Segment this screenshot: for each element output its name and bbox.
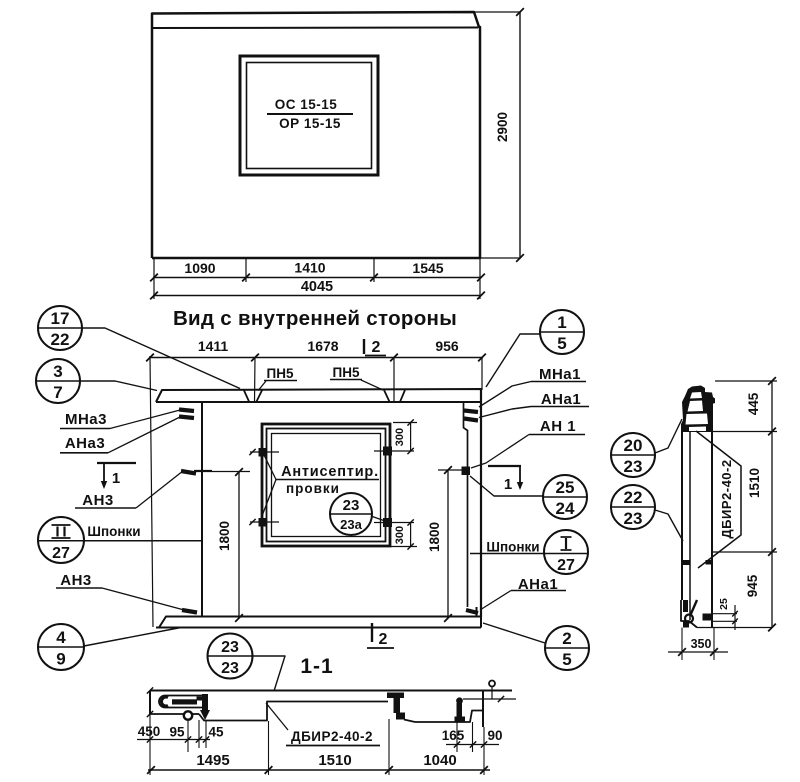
svg-text:95: 95: [169, 725, 185, 740]
section cut 2 bottom mark: [371, 623, 373, 642]
section left end edge: [149, 691, 151, 715]
svg-text:Вид с внутренней стороны: Вид с внутренней стороны: [173, 307, 457, 330]
svg-text:ПН5: ПН5: [333, 365, 360, 380]
anchor mark AN3 left: [181, 471, 196, 474]
dimension 1495 1510 1040: [148, 769, 490, 771]
dimension 350: [681, 628, 683, 661]
svg-text:1800: 1800: [427, 522, 442, 552]
svg-text:1510: 1510: [318, 752, 351, 769]
lifting loop circle: [184, 711, 192, 719]
svg-text:350: 350: [691, 637, 712, 651]
anchor mark ANa1 bottom right: [466, 610, 478, 613]
svg-text:Шпонки: Шпонки: [486, 540, 539, 555]
dimension 165 and 90: [446, 744, 499, 746]
svg-text:5: 5: [562, 650, 571, 669]
antiseptic plug mark right top: [374, 450, 414, 452]
svg-text:2900: 2900: [495, 112, 510, 142]
vertical dimension 2900: [519, 12, 521, 258]
panel left edge: [201, 402, 203, 617]
section right edge: [482, 691, 484, 728]
top elevation: window opening inner frame: [247, 63, 372, 169]
svg-text:7: 7: [53, 383, 62, 402]
panel right edge: [480, 389, 482, 617]
leader from 3/7 to bar left end: [80, 381, 157, 391]
antiseptic plug mark right bottom: [374, 522, 414, 524]
svg-text:АН3: АН3: [60, 572, 92, 589]
svg-text:ПН5: ПН5: [267, 366, 294, 381]
dimension 300 top right of window: [410, 423, 412, 452]
dimension 1800 left: [238, 472, 240, 618]
top elevation: top strip line: [152, 27, 478, 30]
svg-text:ДБИР2-40-2: ДБИР2-40-2: [719, 459, 734, 538]
svg-text:23: 23: [624, 509, 643, 528]
extension from loop down: [187, 720, 189, 753]
svg-text:1: 1: [557, 313, 566, 332]
svg-text:4045: 4045: [301, 279, 333, 295]
svg-text:МНа1: МНа1: [539, 366, 581, 383]
callout 22/23: [611, 485, 655, 529]
marking flag outline: [696, 431, 741, 568]
leader from 17/22 to top bar: [82, 328, 240, 389]
extension line left full height: [150, 356, 153, 627]
svg-text:445: 445: [746, 392, 761, 415]
section bottom left lines: [150, 713, 184, 715]
svg-text:1410: 1410: [294, 260, 325, 276]
svg-text:1510: 1510: [747, 468, 762, 498]
svg-text:1411: 1411: [198, 338, 229, 354]
section marker 1 right: [488, 465, 521, 467]
svg-text:1678: 1678: [307, 338, 338, 354]
antiseptic plug mark left bottom: [250, 521, 279, 523]
svg-text:1545: 1545: [412, 260, 443, 276]
fraction line: [267, 113, 353, 115]
svg-text:1800: 1800: [217, 521, 232, 551]
svg-text:АНа3: АНа3: [65, 435, 105, 452]
svg-text:1040: 1040: [423, 752, 456, 769]
svg-text:23: 23: [221, 660, 239, 677]
callout 23/23 bottom: [208, 634, 253, 679]
svg-text:45: 45: [208, 725, 224, 740]
svg-text:2: 2: [562, 629, 571, 648]
right end top line and mark: [463, 698, 516, 700]
svg-text:3: 3: [53, 362, 62, 381]
extension line x394 through notch: [393, 357, 395, 402]
window frame outer: [262, 424, 390, 546]
svg-text:24: 24: [556, 499, 575, 518]
dimension 1800 right: [447, 470, 449, 618]
svg-text:2: 2: [372, 339, 381, 356]
callout 20/23: [611, 433, 655, 477]
svg-text:АН 1: АН 1: [540, 418, 576, 435]
svg-text:25: 25: [718, 598, 730, 610]
svg-text:АНа1: АНа1: [541, 391, 581, 408]
svg-text:27: 27: [557, 557, 575, 574]
svg-text:300: 300: [394, 526, 406, 544]
svg-text:4: 4: [56, 628, 66, 647]
section bottom mid line: [415, 721, 462, 723]
window frame middle: [267, 429, 386, 542]
dovetail notch 1: [244, 390, 249, 402]
svg-text:23: 23: [343, 497, 360, 514]
svg-text:АН3: АН3: [82, 492, 114, 509]
svg-text:ОС 15-15: ОС 15-15: [275, 97, 338, 112]
svg-text:23: 23: [624, 457, 643, 476]
side view top joint detail: [681, 386, 715, 433]
dimension line 1090 / 1410 / 1545: [153, 277, 481, 279]
side view left edge: [681, 432, 683, 600]
dimension 25 side view: [713, 613, 737, 615]
svg-text:9: 9: [56, 650, 65, 669]
channel element right: [456, 697, 463, 704]
callout 2/5: [545, 626, 589, 670]
svg-text:1495: 1495: [196, 752, 229, 769]
svg-text:165: 165: [442, 728, 465, 743]
svg-text:провки: провки: [286, 481, 340, 496]
svg-text:20: 20: [624, 436, 643, 455]
svg-text:1-1: 1-1: [300, 655, 333, 678]
svg-text:ОР 15-15: ОР 15-15: [279, 116, 341, 131]
svg-text:25: 25: [556, 478, 575, 497]
callout 1/5: [540, 310, 584, 354]
svg-text:27: 27: [52, 545, 70, 562]
dimension 300 bottom right of window: [410, 523, 412, 547]
extension lines below top panel: [153, 258, 155, 299]
rebar C mark in slot: [161, 697, 168, 706]
svg-text:23: 23: [221, 639, 239, 656]
dimension 450 95 45: [137, 739, 210, 741]
extension line right edge: [481, 357, 483, 390]
right edge inner column: [464, 403, 468, 608]
svg-text:ДБИР2-40-2: ДБИР2-40-2: [291, 729, 373, 744]
side view bottom joint detail: [683, 600, 688, 612]
wedge below: [200, 710, 210, 720]
callout 3/7: [36, 359, 80, 403]
svg-text:5: 5: [557, 334, 566, 353]
anchor marks MNa3/ANa3 left edge: [179, 410, 194, 412]
anchor mark AN1 right edge: [462, 467, 471, 476]
callout 17/22: [38, 306, 82, 350]
svg-text:956: 956: [435, 338, 459, 354]
svg-text:17: 17: [51, 309, 70, 328]
svg-text:22: 22: [51, 330, 70, 349]
callout 4/9: [38, 624, 84, 670]
extension line top right: [474, 11, 521, 13]
callout 23/23a: [330, 493, 372, 535]
anchor marks MNa1/ANa1 top right: [464, 411, 478, 413]
joint T element: [202, 694, 208, 711]
svg-text:МНа3: МНа3: [65, 411, 107, 428]
svg-text:1: 1: [112, 470, 120, 487]
svg-text:450: 450: [138, 724, 161, 739]
window corner marks side view: [683, 560, 690, 565]
svg-text:90: 90: [487, 728, 502, 743]
dimension line 1411/1678/956: [149, 357, 483, 359]
svg-text:22: 22: [624, 488, 643, 507]
extension line bottom right to 2900 dim: [480, 257, 521, 259]
section cut 2 top mark: [363, 339, 365, 354]
dovetail notch 2: [384, 390, 390, 402]
top elevation: panel outline: [152, 12, 480, 258]
right end step: [462, 711, 483, 723]
section marker 1 left: [97, 462, 136, 464]
antiseptic plug mark left top: [250, 451, 279, 453]
channel slot left: [159, 696, 203, 708]
rebar bar in slot: [172, 699, 197, 704]
side view inner line: [689, 432, 691, 620]
anchor mark AN3 bottom left: [182, 610, 197, 613]
side view right edge: [711, 399, 713, 628]
dimension line 4045: [153, 295, 481, 297]
section 1-1 top line: [150, 690, 512, 692]
channel element mid (PN5 in section): [387, 693, 404, 699]
window frame inner: [272, 434, 381, 537]
top bar of panel: [156, 389, 481, 402]
top elevation: window opening outer frame: [240, 56, 378, 175]
svg-text:1: 1: [504, 476, 512, 493]
svg-text:2: 2: [379, 631, 388, 648]
svg-text:945: 945: [745, 574, 760, 597]
callout 25/24: [543, 475, 587, 519]
svg-text:Антисептир.: Антисептир.: [281, 464, 379, 480]
callout II/27 with Shponki: [38, 517, 84, 563]
svg-text:300: 300: [394, 428, 406, 446]
svg-text:23а: 23а: [340, 517, 362, 532]
extension line x255 through notch: [254, 357, 257, 402]
side view vertical dimension 445/1510/945: [771, 381, 773, 628]
svg-text:Шпонки: Шпонки: [87, 524, 140, 539]
svg-text:1090: 1090: [184, 260, 215, 276]
bottom bar of panel: [159, 617, 481, 628]
